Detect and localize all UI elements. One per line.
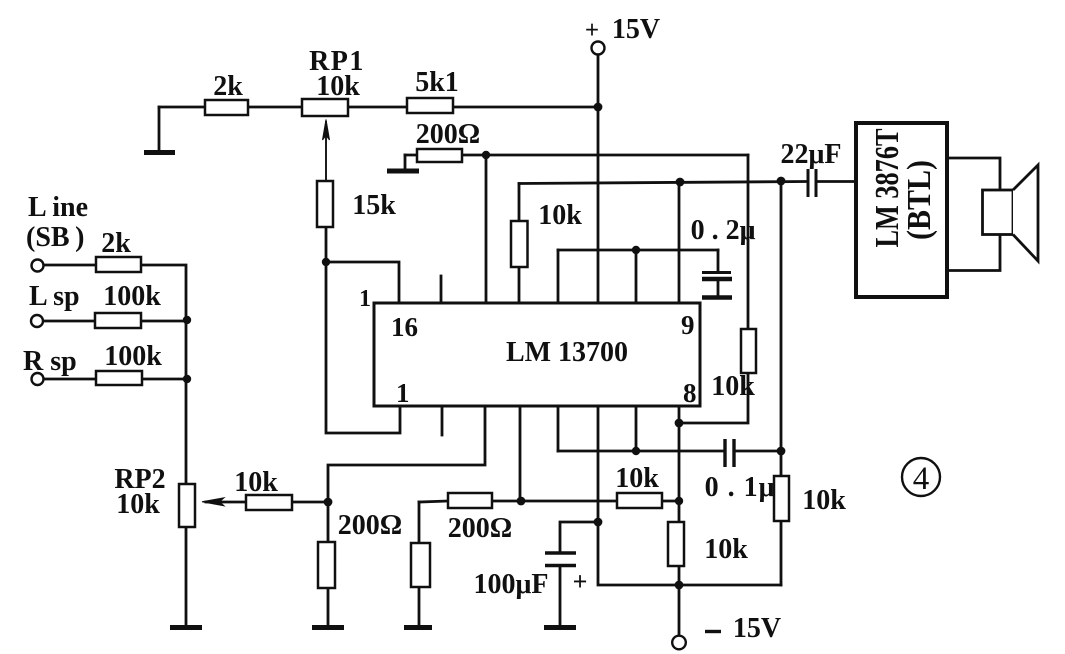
svg-text:200Ω: 200Ω — [416, 119, 480, 150]
svg-text:100k: 100k — [104, 341, 162, 372]
svg-text:10k: 10k — [116, 489, 160, 520]
svg-text:10k: 10k — [704, 534, 748, 565]
svg-text:16: 16 — [391, 312, 418, 342]
svg-text:200Ω: 200Ω — [448, 513, 512, 544]
svg-text:1: 1 — [396, 378, 410, 408]
svg-text:2k: 2k — [101, 228, 131, 259]
svg-text:L sp: L sp — [29, 281, 80, 312]
svg-text:LM 13700: LM 13700 — [506, 337, 628, 368]
svg-text:8: 8 — [683, 378, 697, 408]
svg-text:1: 1 — [359, 286, 371, 312]
svg-text:200Ω: 200Ω — [338, 510, 402, 541]
svg-text:+: + — [573, 567, 588, 596]
svg-text:10k: 10k — [615, 463, 659, 494]
svg-text:2k: 2k — [213, 71, 243, 102]
svg-text:4: 4 — [913, 461, 930, 497]
svg-text:10k: 10k — [711, 371, 755, 402]
svg-text:22μF: 22μF — [781, 139, 842, 170]
svg-text:10k: 10k — [316, 71, 360, 102]
svg-text:0 . 1μ: 0 . 1μ — [705, 472, 776, 503]
svg-text:15V: 15V — [612, 14, 660, 45]
svg-text:15k: 15k — [352, 190, 396, 221]
svg-text:9: 9 — [681, 310, 695, 340]
svg-text:R sp: R sp — [23, 346, 77, 377]
svg-text:15V: 15V — [733, 613, 781, 644]
svg-text:100μF: 100μF — [474, 569, 549, 600]
svg-text:10k: 10k — [538, 200, 582, 231]
svg-text:+: + — [585, 17, 599, 44]
svg-text:(BTL): (BTL) — [901, 160, 938, 240]
svg-text:5k1: 5k1 — [415, 67, 459, 98]
svg-text:L ine: L ine — [28, 192, 88, 223]
svg-text:100k: 100k — [103, 281, 161, 312]
svg-text:0 . 2μ: 0 . 2μ — [691, 215, 756, 246]
svg-text:10k: 10k — [802, 485, 846, 516]
svg-text:10k: 10k — [234, 467, 278, 498]
svg-text:(SB ): (SB ) — [26, 222, 85, 253]
